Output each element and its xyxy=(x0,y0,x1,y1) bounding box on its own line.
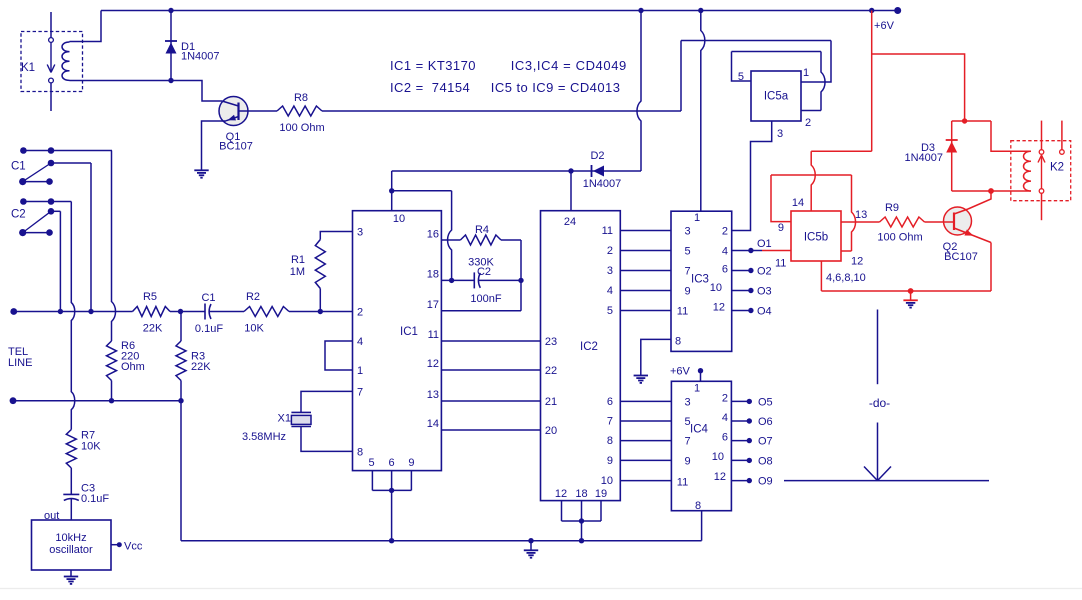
label R2 value 10K xyxy=(244,323,264,335)
label O1 xyxy=(757,238,772,250)
label X1 value 3.58MHz xyxy=(242,431,286,443)
svg-text:0.1uF: 0.1uF xyxy=(81,493,109,505)
label IC1 pin 9 xyxy=(408,457,414,469)
wire C1-B to TEL top xyxy=(90,163,92,312)
resistor R3 xyxy=(176,341,186,381)
label IC3 pin 10 xyxy=(710,282,722,294)
svg-text:9: 9 xyxy=(408,457,414,469)
contact C1 arm xyxy=(23,163,51,182)
svg-text:2: 2 xyxy=(357,307,363,319)
wire pin10 node right xyxy=(392,190,452,192)
svg-text:2: 2 xyxy=(805,117,811,129)
label -do- xyxy=(869,396,890,410)
svg-text:12: 12 xyxy=(714,471,726,483)
wire R9 to Q2 base xyxy=(925,221,955,223)
label IC2 pin 19 xyxy=(595,488,607,500)
capacitor C2 xyxy=(474,272,480,288)
contact C2 row-B terminal xyxy=(48,208,55,215)
wire K1 coil top to +6V rail xyxy=(70,11,102,42)
ground below IC3 pin8 xyxy=(634,376,648,383)
label IC5a pin 1 xyxy=(803,67,809,79)
label IC1 pin 2 xyxy=(357,307,363,319)
diode D1 xyxy=(165,41,177,54)
label C1 (cap) xyxy=(201,292,215,304)
wire R4 to riser xyxy=(501,239,521,241)
label IC4 xyxy=(690,424,709,436)
svg-text:1N4007: 1N4007 xyxy=(583,178,622,190)
svg-text:18: 18 xyxy=(575,488,587,500)
label IC4 pin 4 xyxy=(722,412,728,424)
svg-text:IC4: IC4 xyxy=(690,424,709,436)
node R6 on TEL bottom xyxy=(109,398,114,403)
svg-text:4: 4 xyxy=(607,285,613,297)
label IC1 pin 3 xyxy=(357,227,363,239)
wire TEL top xyxy=(14,311,133,313)
svg-text:10: 10 xyxy=(712,451,724,463)
svg-text:3: 3 xyxy=(685,396,691,408)
label IC2 pin 20 xyxy=(545,425,557,437)
label R9 value 100 Ohm xyxy=(877,232,922,244)
transistor Q2 body circle xyxy=(944,207,972,235)
wire D2 to +6V rail (crosses R8 wire) xyxy=(637,11,641,172)
svg-text:9: 9 xyxy=(778,222,784,234)
label C3 value 0.1uF xyxy=(81,493,109,505)
wire IC2 pin4 to IC3 pin9 xyxy=(620,290,671,292)
label +6V at IC4 xyxy=(670,366,691,378)
wire IC5b pin13 to R9 xyxy=(841,221,880,223)
node IC2 on ground rail xyxy=(579,538,584,543)
svg-text:10kHz: 10kHz xyxy=(55,532,86,544)
svg-text:21: 21 xyxy=(545,396,557,408)
contact C2 row-A wire xyxy=(23,201,71,203)
wire TEL bottom xyxy=(13,401,181,541)
wire IC2 pin7 to IC4 pin5 xyxy=(620,420,671,422)
label IC5a pin 2 xyxy=(805,117,811,129)
svg-text:10: 10 xyxy=(710,282,722,294)
contact C2 arm xyxy=(23,211,51,232)
wire IC1 pin16 lead xyxy=(441,239,460,241)
wire -do- upper segment xyxy=(877,310,879,385)
label oscillator xyxy=(49,544,93,556)
wire IC1 pin18 lead xyxy=(441,279,474,281)
label IC1 pin 5 xyxy=(368,457,374,469)
svg-text:O8: O8 xyxy=(758,455,773,467)
contact C1 row-C terminal right xyxy=(46,178,53,185)
svg-text:R9: R9 xyxy=(885,202,899,214)
wire C2-B to TEL top xyxy=(59,211,61,311)
wire IC2 pins to ground rail xyxy=(581,521,583,541)
svg-text:R5: R5 xyxy=(143,291,157,303)
wire +6V to IC4 pin1 xyxy=(700,371,702,382)
node O3 xyxy=(748,288,753,293)
svg-text:0.1uF: 0.1uF xyxy=(195,323,223,335)
relay K1 contact lower circle xyxy=(49,78,54,83)
svg-text:13: 13 xyxy=(427,389,439,401)
relay K1 contact upper circle xyxy=(49,38,54,43)
contact C1 row-C terminal left xyxy=(19,178,26,185)
label R1 value 1M xyxy=(290,266,305,278)
IC1 box xyxy=(353,211,442,471)
label C2 (contact) xyxy=(11,209,26,221)
resistor R9 xyxy=(880,217,925,227)
svg-text:6: 6 xyxy=(722,264,728,276)
capacitor C1 xyxy=(205,304,211,320)
label IC2 pin 10 xyxy=(601,475,613,487)
ground on bottom rail xyxy=(524,541,538,558)
svg-text:K2: K2 xyxy=(1050,162,1064,174)
wire D1 node to Q1 collector xyxy=(171,81,222,102)
svg-text:D2: D2 xyxy=(590,150,604,162)
label C1 value 0.1uF xyxy=(195,323,223,335)
transistor Q1 base bar xyxy=(237,103,239,121)
label IC5a pin 3 xyxy=(777,128,783,140)
relay K2 armature with arrow xyxy=(1038,155,1045,188)
wire IC3 pin8 to ground xyxy=(641,339,671,375)
svg-text:O5: O5 xyxy=(758,396,773,408)
label IC4 pin 7 xyxy=(685,436,691,448)
svg-text:O6: O6 xyxy=(758,416,773,428)
wire Q1 emitter to ground xyxy=(202,121,227,170)
label IC4 pin 2 xyxy=(722,393,728,405)
wire IC3 pin1 from +6V rail (jogs over IC5a wire) xyxy=(701,11,705,212)
label IC5b pin 9 xyxy=(778,222,784,234)
svg-text:O2: O2 xyxy=(757,266,772,278)
label IC5a pin 5 xyxy=(738,71,744,83)
svg-text:100 Ohm: 100 Ohm xyxy=(279,122,324,134)
ground below Q1 xyxy=(194,170,208,177)
svg-text:22K: 22K xyxy=(191,361,211,373)
resistor R1 xyxy=(315,240,325,289)
svg-text:2: 2 xyxy=(722,226,728,238)
label IC4 pin 9 xyxy=(685,455,691,467)
resistor R7 xyxy=(66,430,76,469)
resistor R6 xyxy=(107,341,117,381)
transistor Q1 emitter stroke xyxy=(226,115,239,121)
node red ground junction xyxy=(908,288,914,294)
label IC3 pin 4 xyxy=(722,246,728,258)
node +6V rail junction at D1 xyxy=(168,8,173,13)
wire D1 vertical xyxy=(170,11,172,81)
svg-text:K1: K1 xyxy=(21,62,35,74)
IC4 box xyxy=(671,381,731,510)
label IC3 pin 2 xyxy=(722,226,728,238)
label R6 value 220 xyxy=(121,351,139,363)
relay K1 contact upper lead xyxy=(50,12,52,38)
wire IC2 pin2 to IC3 pin5 xyxy=(620,250,671,252)
ground red (top bar red) xyxy=(903,291,917,308)
label IC1 pin 17 xyxy=(427,299,439,311)
svg-text:11: 11 xyxy=(602,225,613,237)
svg-text:1: 1 xyxy=(694,212,700,224)
transistor Q1 collector stroke xyxy=(222,101,239,106)
svg-text:14: 14 xyxy=(427,418,439,430)
wire R3 top xyxy=(180,312,182,342)
crystal X1 xyxy=(291,412,311,426)
contact C1 row-A wire xyxy=(23,150,112,152)
label IC1 pin 12 xyxy=(427,358,439,370)
label LINE xyxy=(8,357,32,369)
svg-text:C2: C2 xyxy=(11,209,26,221)
node IC1 bottom pins junction xyxy=(389,488,394,493)
label IC1 pin 13 xyxy=(427,389,439,401)
wire +6V top rail xyxy=(101,10,898,12)
resistor R4 xyxy=(460,235,501,245)
label IC3,IC4 = CD4049 xyxy=(511,58,627,73)
svg-text:1M: 1M xyxy=(290,266,305,278)
label IC2 pin 21 xyxy=(545,396,557,408)
wire pin10 node to D2 line xyxy=(391,171,393,191)
wire IC3 pin4 output O1 xyxy=(732,250,762,252)
svg-text:9: 9 xyxy=(685,286,691,298)
svg-text:3: 3 xyxy=(777,128,783,140)
relay K2 contact-A upper lead xyxy=(1041,121,1043,150)
node IC2 bottom pins junction xyxy=(579,518,584,523)
label IC1 pin 11 xyxy=(428,329,439,341)
svg-text:Vcc: Vcc xyxy=(124,541,143,553)
transistor Q2 collector stroke xyxy=(954,209,968,214)
wire IC3 pin6 output O2 xyxy=(732,270,751,272)
wire bottom ground rail xyxy=(181,540,702,542)
wire IC2 pin11 to IC3 pin3 xyxy=(620,230,671,232)
label IC3 pin 1 xyxy=(694,212,700,224)
svg-text:7: 7 xyxy=(685,266,691,278)
svg-text:7: 7 xyxy=(357,386,363,398)
svg-text:100nF: 100nF xyxy=(470,293,501,305)
wire C2 to riser xyxy=(479,279,522,281)
label O4 xyxy=(757,306,772,318)
label D2 value 1N4007 xyxy=(583,178,622,190)
label IC4 pin 12 xyxy=(714,471,726,483)
node O2 xyxy=(748,268,753,273)
label IC3 pin 3 xyxy=(685,226,691,238)
svg-text:R4: R4 xyxy=(475,224,489,236)
label IC2 pin 9 xyxy=(607,455,613,467)
label R5 value 22K xyxy=(143,323,163,335)
label IC2 pin 22 xyxy=(545,365,557,377)
node C2-B on TEL top xyxy=(58,309,63,314)
svg-text:5: 5 xyxy=(607,305,613,317)
svg-text:5: 5 xyxy=(685,416,691,428)
label IC4 pin 5 xyxy=(685,416,691,428)
label IC2 = 74154 xyxy=(390,80,470,95)
label R5 xyxy=(143,291,157,303)
wire C1-A to R6 (crosses TEL line) xyxy=(112,151,116,342)
wire riser x681 up xyxy=(680,41,682,112)
svg-text:22: 22 xyxy=(545,365,557,377)
svg-text:3: 3 xyxy=(357,227,363,239)
label IC1 pin 18 xyxy=(427,269,439,281)
node IC1 on ground rail xyxy=(389,538,394,543)
wire R8 to IC5a pin1 riser xyxy=(322,110,681,112)
node +6V rail junction at IC3 pin1 branch xyxy=(698,8,703,13)
svg-text:8: 8 xyxy=(357,446,363,458)
wire O1 to IC5b pin11 (red part) xyxy=(762,250,791,252)
wire IC2 pin9 to IC4 pin9 xyxy=(620,459,671,461)
wire IC4 pin6 output O7 xyxy=(731,440,749,442)
label IC1 pin 7 xyxy=(357,386,363,398)
label Q2 xyxy=(943,241,958,253)
node D1-K1-Q1 junction xyxy=(168,78,173,83)
contact C2 row-C terminal right xyxy=(46,229,53,236)
relay K2 contact-A lower lead xyxy=(1041,193,1043,220)
relay K2 contact-B circle xyxy=(1060,150,1065,155)
wire red coil top branch xyxy=(991,121,1031,151)
svg-text:5: 5 xyxy=(685,246,691,258)
svg-text:9: 9 xyxy=(685,455,691,467)
wire riser x521 xyxy=(520,240,522,311)
svg-text:10: 10 xyxy=(601,475,613,487)
label IC2 pin 7 xyxy=(607,416,613,428)
label IC3 pin 9 xyxy=(685,286,691,298)
ground below oscillator xyxy=(64,577,78,584)
node O5 xyxy=(747,399,752,404)
contact C1 row-C wire xyxy=(23,181,50,183)
label IC1 pin 4 xyxy=(357,336,363,348)
capacitor C3 xyxy=(63,494,79,500)
label R6 value Ohm xyxy=(121,361,145,373)
label IC4 pin 10 xyxy=(712,451,724,463)
svg-text:12: 12 xyxy=(713,302,725,314)
wire R6 bottom xyxy=(111,381,113,401)
label IC5b xyxy=(804,232,828,244)
wire Vcc stub xyxy=(111,544,119,546)
IC5a box xyxy=(751,71,801,121)
svg-text:10K: 10K xyxy=(81,440,101,452)
label K2 xyxy=(1050,162,1064,174)
svg-text:1: 1 xyxy=(357,365,363,377)
node O8 xyxy=(747,458,752,463)
resistor R8 xyxy=(277,106,322,116)
IC1 pin7 lead xyxy=(301,391,353,412)
label R2 xyxy=(246,291,260,303)
label IC5 to IC9 = CD4013 xyxy=(491,80,621,95)
label IC5b pin 14 xyxy=(792,197,804,209)
label IC5a xyxy=(764,91,789,103)
svg-text:4,6,8,10: 4,6,8,10 xyxy=(826,272,866,284)
svg-text:17: 17 xyxy=(427,299,439,311)
terminal TEL line top xyxy=(10,308,17,315)
label IC1 pin 16 xyxy=(427,229,439,241)
label R9 xyxy=(885,202,899,214)
node red collector junction xyxy=(988,188,994,194)
wire R7 to C3 xyxy=(70,468,72,494)
label IC5b pins 4,6,8,10 xyxy=(826,272,866,284)
label D1 xyxy=(181,41,195,53)
label O9 xyxy=(758,476,773,488)
wire IC1 pin13 to IC2 pin21 xyxy=(441,400,540,402)
wire IC2 pin6 to IC4 pin3 xyxy=(620,400,671,402)
svg-text:IC5b: IC5b xyxy=(804,232,828,244)
svg-text:oscillator: oscillator xyxy=(49,544,93,556)
label O6 xyxy=(758,416,773,428)
label IC1 xyxy=(400,326,418,338)
label IC2 pin 11 xyxy=(602,225,613,237)
label IC2 pin 18 xyxy=(575,488,587,500)
label X1 xyxy=(278,413,291,425)
svg-text:O4: O4 xyxy=(757,306,772,318)
wire IC3 pin2 to IC5a pin3 xyxy=(732,121,772,231)
node +6V rail junction at red branch xyxy=(869,8,874,13)
wire red +6V branch xyxy=(872,11,965,152)
diode D2 xyxy=(592,165,605,177)
label R3 value 22K xyxy=(191,361,211,373)
relay K1 coil xyxy=(62,42,69,80)
label IC4 pin 8 xyxy=(695,500,701,512)
wire red D3 branch xyxy=(951,121,953,191)
svg-text:O7: O7 xyxy=(758,436,773,448)
label IC2 pin 12 xyxy=(555,488,567,500)
svg-text:X1: X1 xyxy=(278,413,291,425)
svg-text:19: 19 xyxy=(595,488,607,500)
label K1 xyxy=(21,62,35,74)
IC1 pin10 stub xyxy=(391,191,393,211)
label out xyxy=(44,510,59,522)
contact C2 row-A terminal left xyxy=(20,198,27,205)
svg-text:IC2 = 74154: IC2 = 74154 xyxy=(390,80,470,95)
contact C1 row-B wire xyxy=(51,162,91,164)
wire D2 horizontal xyxy=(392,170,641,172)
label Q1 type BC107 xyxy=(219,141,253,153)
node O4 xyxy=(748,308,753,313)
label IC5b pin 12 xyxy=(851,256,863,268)
wire IC3 pin10 output O3 xyxy=(732,290,751,292)
node C1-B on TEL top xyxy=(88,309,93,314)
svg-text:24: 24 xyxy=(564,216,576,228)
label IC1 pin 10 xyxy=(393,213,405,225)
label R6 xyxy=(121,340,135,352)
wire IC5a pin1 horizontal xyxy=(681,40,831,42)
label IC3 pin 8 xyxy=(675,336,681,348)
svg-text:7: 7 xyxy=(685,436,691,448)
label IC2 pin 3 xyxy=(607,265,613,277)
label IC2 pin 6 xyxy=(607,396,613,408)
node +6V rail end terminal xyxy=(894,7,901,14)
svg-text:6: 6 xyxy=(607,396,613,408)
svg-text:23: 23 xyxy=(545,336,557,348)
label C1 (contact) xyxy=(11,161,26,173)
label Vcc xyxy=(124,541,143,553)
label IC4 pin 11 xyxy=(677,476,688,488)
label IC3 pin 6 xyxy=(722,264,728,276)
transistor Q1 base lead xyxy=(239,110,278,112)
wire IC1 pins to ground rail xyxy=(391,490,393,540)
relay K2 contact-A lower circle xyxy=(1039,189,1044,194)
relay K1 dashed box xyxy=(21,32,83,92)
svg-text:4: 4 xyxy=(357,336,363,348)
label IC1 pin 8 xyxy=(357,446,363,458)
svg-text:IC2: IC2 xyxy=(580,341,598,353)
label IC1 pin 6 xyxy=(389,457,395,469)
transistor Q1 body circle xyxy=(219,97,248,126)
svg-text:7: 7 xyxy=(607,416,613,428)
svg-text:13: 13 xyxy=(855,209,867,221)
label Q2 type BC107 xyxy=(944,251,978,263)
wire oscillator ground stub xyxy=(70,570,72,577)
contact C1 row-B terminal xyxy=(48,160,55,167)
svg-text:6: 6 xyxy=(722,432,728,444)
wire IC4 pin10 output O8 xyxy=(731,459,749,461)
svg-text:IC5a: IC5a xyxy=(764,91,789,103)
wire R2 to IC1 pin2 xyxy=(289,311,353,313)
label IC2 pin 24 xyxy=(564,216,576,228)
node O7 xyxy=(747,438,752,443)
label +6V (top right) xyxy=(874,20,895,32)
label IC4 pin 3 xyxy=(685,396,691,408)
label IC2 xyxy=(580,341,598,353)
label D3 value 1N4007 xyxy=(904,152,943,164)
label IC3 pin 7 xyxy=(685,266,691,278)
terminal +6V dot at IC4 xyxy=(698,368,703,373)
